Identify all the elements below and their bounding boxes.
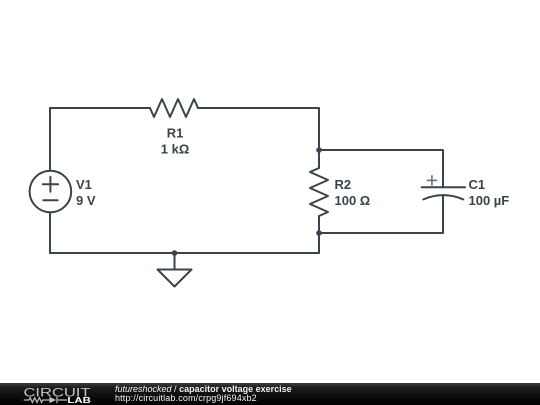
svg-text:R2: R2 <box>335 177 352 192</box>
resistor R2 <box>310 168 328 216</box>
wire R2 to node B <box>318 216 320 233</box>
svg-text:R1: R1 <box>167 126 184 141</box>
CircuitLab logo <box>20 383 100 405</box>
wire bottom rail <box>50 252 319 254</box>
node B dot <box>316 230 322 236</box>
wire node B down to bottom rail <box>318 233 320 253</box>
C1 polarity plus <box>427 175 438 185</box>
resistor R1 <box>150 99 198 117</box>
wire R1 to top-right corner <box>198 108 319 150</box>
footer bar <box>0 383 540 405</box>
wire left rail lower (V1 minus to bottom) <box>49 212 51 253</box>
wire node A to R2 <box>318 150 320 168</box>
node A dot <box>316 147 322 153</box>
ground node dot <box>172 250 178 256</box>
wire node A to C1 top <box>319 150 443 187</box>
voltage source V1 circle <box>30 171 72 213</box>
svg-text:C1: C1 <box>469 177 486 192</box>
svg-text:LAB: LAB <box>67 396 91 405</box>
wire C1 bottom to node B <box>319 195 443 233</box>
svg-text:100 Ω: 100 Ω <box>335 193 371 208</box>
svg-text:V1: V1 <box>76 177 92 192</box>
ground stub <box>174 253 176 270</box>
capacitor C1 bottom plate (curved) <box>423 195 463 199</box>
wire top left to R1 <box>50 107 150 109</box>
ground triangle <box>158 270 192 287</box>
svg-text:1 kΩ: 1 kΩ <box>161 142 190 157</box>
capacitor C1 top plate <box>422 186 465 188</box>
svg-text:9 V: 9 V <box>76 193 96 208</box>
V1 plus sign <box>43 177 58 192</box>
V1 minus sign <box>43 199 57 201</box>
svg-text:100 µF: 100 µF <box>469 193 510 208</box>
wire left rail upper (V1 plus to top) <box>49 108 51 171</box>
